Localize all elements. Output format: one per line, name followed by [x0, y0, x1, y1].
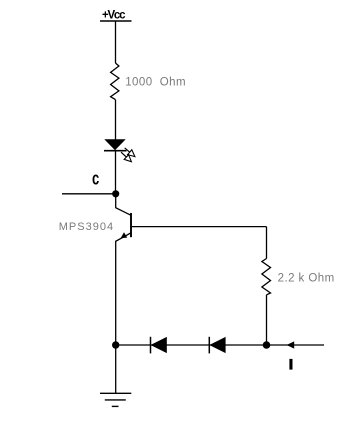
svg-text:MPS3904: MPS3904: [59, 221, 113, 233]
svg-text:1000 Ohm: 1000 Ohm: [125, 77, 185, 89]
svg-text:2.2 k Ohm: 2.2 k Ohm: [278, 272, 335, 284]
svg-text:+Vcc: +Vcc: [102, 9, 126, 21]
svg-text:c: c: [92, 169, 99, 189]
